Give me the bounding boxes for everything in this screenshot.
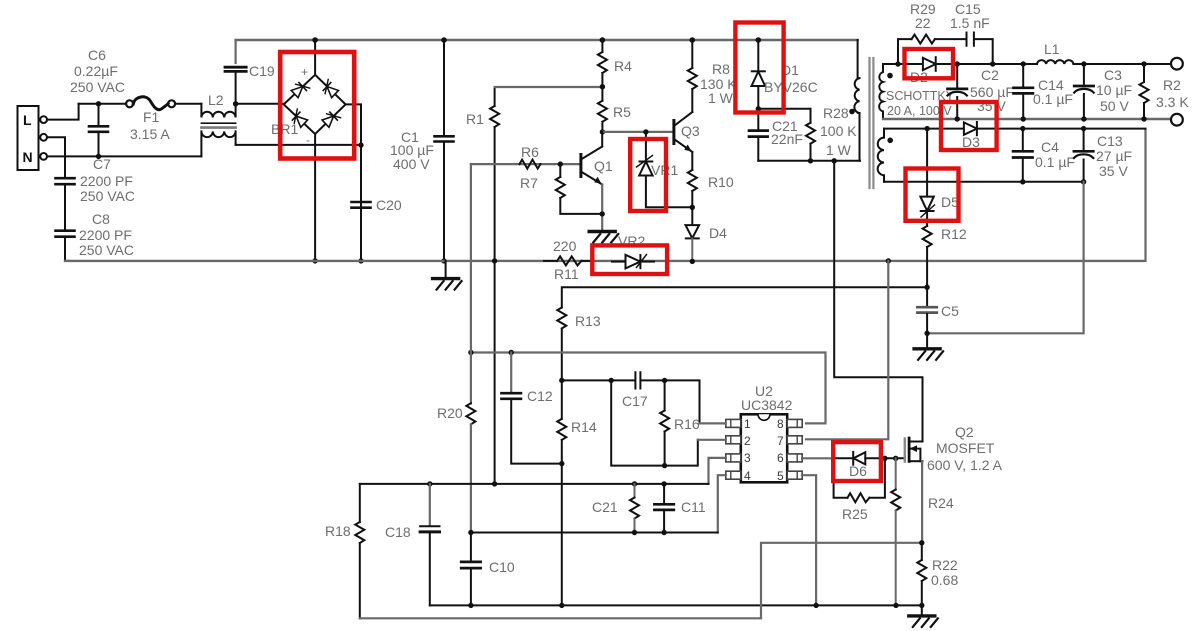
- resistor R11: [544, 256, 592, 265]
- svg-text:50 V: 50 V: [1100, 98, 1129, 114]
- node C21b bottom: [632, 530, 637, 535]
- svg-text:100 K: 100 K: [820, 123, 857, 139]
- svg-text:C11: C11: [681, 499, 706, 515]
- output wire top: [957, 63, 1037, 65]
- node C21b top: [632, 481, 637, 486]
- svg-text:7: 7: [777, 434, 784, 448]
- svg-text:C7: C7: [93, 156, 111, 172]
- svg-text:1 W: 1 W: [826, 142, 852, 158]
- wire secondary top to D2: [883, 63, 923, 65]
- node C11 bottom: [661, 530, 666, 535]
- node rail bridge+: [312, 37, 318, 43]
- current sense lower rail: [360, 543, 922, 619]
- resistor R25 loop: [834, 458, 885, 502]
- wire y=532 rail: [471, 532, 718, 534]
- secondary winding top: [879, 64, 883, 119]
- capacitor C8: [56, 231, 75, 237]
- capacitor C19: [225, 40, 246, 104]
- svg-text:22nF: 22nF: [771, 131, 803, 147]
- node C10 bottom: [468, 603, 473, 608]
- 0V rail: [883, 118, 1171, 120]
- svg-text:Q1: Q1: [594, 158, 613, 174]
- svg-text:R22: R22: [932, 557, 958, 573]
- pin stub 7: [787, 436, 802, 444]
- node C14 top: [1021, 61, 1026, 66]
- svg-text:D4: D4: [709, 225, 727, 241]
- svg-text:C17: C17: [622, 393, 648, 409]
- svg-text:R6: R6: [521, 144, 539, 160]
- bridge diode bottom-right: [321, 109, 340, 128]
- svg-text:250 VAC: 250 VAC: [79, 242, 134, 258]
- svg-text:R28: R28: [823, 105, 849, 121]
- svg-text:N: N: [23, 149, 33, 165]
- IC U2 body: [741, 414, 787, 482]
- node C20 bottom rail: [358, 258, 363, 263]
- svg-text:BYV26C: BYV26C: [764, 79, 818, 95]
- red box D3: [941, 102, 997, 150]
- svg-text:0.1 µF: 0.1 µF: [1033, 91, 1073, 107]
- secondary winding bottom: [878, 129, 884, 182]
- node R1 column bottom: [492, 481, 497, 486]
- node C6 bottom: [96, 154, 101, 159]
- svg-text:2200 PF: 2200 PF: [79, 227, 132, 243]
- diode D3: [964, 122, 977, 135]
- red box D2: [905, 49, 954, 78]
- wire snubber bottom: [758, 160, 860, 162]
- svg-text:R16: R16: [674, 416, 700, 432]
- node snubber R29 corner: [895, 61, 900, 66]
- resistor R1: [490, 87, 499, 261]
- ground under Q1: [589, 232, 618, 243]
- secondary bottom phase dot: [887, 138, 893, 144]
- terminal L circle: [40, 116, 47, 123]
- svg-text:6: 6: [777, 451, 784, 465]
- svg-text:C10: C10: [489, 559, 515, 575]
- wire FB to C17 loop: [562, 379, 635, 381]
- wire D3 to right corner: [977, 129, 1146, 133]
- node C12 bottom / R14: [559, 461, 564, 466]
- svg-text:3.15 A: 3.15 A: [130, 126, 170, 142]
- wire pin5 to ground rail: [802, 475, 816, 604]
- wire Q1 emitter down: [601, 185, 603, 232]
- node C3 bottom: [1081, 116, 1086, 121]
- capacitor C7: [56, 178, 75, 184]
- svg-text:L1: L1: [1044, 41, 1060, 57]
- node C2 bottom: [955, 116, 960, 121]
- wire FB lower side to pin2: [611, 380, 698, 465]
- node gate wire R24: [893, 456, 898, 461]
- resistor R14: [557, 380, 566, 605]
- capacitor C18: [420, 484, 439, 606]
- node R28 bottom: [808, 158, 813, 163]
- node C14 bottom: [1021, 116, 1026, 121]
- node Q1 emitter / R7: [600, 211, 605, 216]
- capacitor C14: [1014, 64, 1033, 119]
- capacitor C4: [1013, 129, 1032, 182]
- capacitor C5: [917, 287, 936, 333]
- secondary top phase dot: [887, 73, 893, 79]
- svg-text:1 W: 1 W: [708, 90, 734, 106]
- node gate wire R25: [882, 456, 887, 461]
- wire L2 to bridge left: [236, 103, 285, 105]
- diode D1: [752, 40, 766, 109]
- terminal N circle: [40, 153, 47, 160]
- bridge rectifier BR1: [284, 40, 361, 261]
- resistor R18: [355, 484, 364, 618]
- svg-text:R12: R12: [941, 226, 967, 242]
- svg-text:R5: R5: [613, 104, 631, 120]
- resistor R2: [1140, 64, 1149, 119]
- svg-text:+: +: [301, 65, 308, 79]
- wire Vref rail pin8: [471, 353, 826, 424]
- node VR1 top: [643, 129, 648, 134]
- wire pin6 to D6: [802, 457, 834, 459]
- node rail C1: [441, 37, 447, 43]
- node C17 left branch: [609, 378, 614, 383]
- svg-text:R24: R24: [928, 495, 954, 511]
- wire gnd mid rail y=484: [360, 483, 709, 485]
- output terminal bottom: [1171, 114, 1183, 126]
- svg-text:L: L: [23, 112, 32, 128]
- wire pin4: [718, 475, 726, 532]
- svg-text:2200 PF: 2200 PF: [80, 173, 133, 189]
- red box BR1: [280, 52, 354, 159]
- svg-text:-: -: [306, 133, 310, 147]
- resistor R10: [688, 152, 697, 207]
- transistor Q1: [581, 132, 602, 185]
- node Q1 base / R7 top: [558, 161, 563, 166]
- capacitor C17: [635, 372, 640, 388]
- resistor R22: [917, 543, 926, 606]
- main ground rail bottom: [430, 604, 922, 606]
- svg-text:220: 220: [553, 238, 577, 254]
- inductor L1: [1037, 60, 1073, 64]
- node C13 bottom: [1081, 179, 1086, 184]
- node R2 bottom: [1141, 116, 1146, 121]
- wire pin1: [700, 422, 726, 424]
- node C15 corner: [990, 61, 995, 66]
- transistor Q3: [674, 112, 692, 152]
- svg-text:R1: R1: [466, 111, 484, 127]
- svg-text:22: 22: [915, 15, 931, 31]
- svg-text:4: 4: [744, 469, 751, 483]
- svg-text:2: 2: [744, 434, 751, 448]
- node source / R22: [919, 540, 924, 545]
- wire R13 top: [562, 287, 927, 307]
- ground under C1: [433, 279, 462, 290]
- svg-text:R18: R18: [325, 523, 351, 539]
- wire mid terminal to C7: [47, 137, 65, 177]
- svg-text:D6: D6: [849, 463, 867, 479]
- wire fuse to L2: [175, 103, 201, 105]
- pin stub 1: [726, 419, 741, 427]
- pin stub 4: [726, 471, 741, 479]
- wire N terminal to L2: [47, 155, 201, 157]
- node rail D1: [756, 37, 762, 43]
- wire L1 to terminal: [1073, 63, 1171, 65]
- wire secondary2 top to D3 line: [884, 128, 964, 130]
- pin stub 5: [787, 471, 802, 479]
- svg-text:10 µF: 10 µF: [1096, 82, 1132, 98]
- svg-text:1: 1: [744, 417, 751, 431]
- node R20/C10 junction: [468, 530, 473, 535]
- capacitor C21 (snubber): [749, 109, 768, 161]
- wire L terminal to top line: [47, 104, 79, 120]
- primary ground rail y=261: [65, 260, 1144, 262]
- svg-text:C3: C3: [1104, 67, 1122, 83]
- wire drain path to Q2: [834, 161, 922, 442]
- primary phase dot: [849, 109, 855, 115]
- svg-text:R25: R25: [842, 506, 868, 522]
- svg-text:L2: L2: [208, 92, 224, 108]
- red box VR2: [592, 245, 667, 274]
- output terminal top: [1171, 58, 1183, 70]
- resistor R12: [923, 226, 932, 287]
- pin stub 2: [726, 436, 741, 444]
- wire Vcc drop to pin7: [806, 261, 888, 439]
- node R13/R14 FB junction: [559, 378, 564, 383]
- red box D1: [735, 23, 783, 113]
- svg-text:R13: R13: [575, 313, 601, 329]
- zener D5: [920, 129, 934, 226]
- wire Q2 source down: [921, 461, 923, 543]
- svg-text:C21: C21: [592, 499, 618, 515]
- svg-text:8: 8: [777, 417, 784, 431]
- svg-text:UC3842: UC3842: [741, 397, 793, 413]
- zener VR1: [637, 132, 693, 207]
- node C2 top: [955, 61, 960, 66]
- ground under C5: [914, 349, 943, 360]
- capacitor C11: [654, 484, 673, 533]
- node C4 bottom: [1020, 179, 1025, 184]
- svg-text:R7: R7: [520, 175, 538, 191]
- svg-text:C2: C2: [981, 67, 999, 83]
- node rail R4: [600, 37, 606, 43]
- primary winding: [854, 40, 859, 161]
- node Vcc branch on rail: [886, 258, 891, 263]
- ground under R22: [909, 616, 938, 627]
- node C12 top: [509, 350, 514, 355]
- wire R5 bottom to Q3 base: [602, 131, 672, 133]
- wire top line to fuse: [79, 103, 127, 105]
- capacitor C10: [461, 533, 480, 606]
- node rail R8: [690, 37, 696, 43]
- svg-text:3: 3: [744, 451, 751, 465]
- inductor L2: [201, 104, 235, 157]
- node R10 bottom / VR1: [690, 205, 695, 210]
- terminal mid circle: [40, 134, 47, 141]
- bridge diode bottom-left: [289, 109, 308, 128]
- wire D3 output drop to rail: [1144, 131, 1146, 261]
- resistor R24: [891, 458, 900, 605]
- svg-text:27 µF: 27 µF: [1096, 148, 1132, 164]
- wire C5 to ground: [926, 333, 928, 348]
- diode D6: [834, 452, 905, 465]
- wire R1 ground column down: [494, 261, 496, 484]
- fuse F1: [126, 97, 175, 110]
- pin stub 6: [787, 454, 802, 462]
- svg-text:1.5 nF: 1.5 nF: [950, 15, 990, 31]
- resistor R16: [660, 380, 669, 465]
- wire R20 corner to R6 to Q1 base: [471, 163, 580, 165]
- resistor R20: [466, 353, 475, 533]
- svg-text:R8: R8: [712, 61, 730, 77]
- svg-text:R4: R4: [614, 58, 632, 74]
- pin stub 3: [726, 454, 741, 462]
- svg-text:3.3 K: 3.3 K: [1156, 94, 1189, 110]
- resistor R8: [688, 40, 697, 112]
- node R1 ground rail: [492, 258, 497, 263]
- wire R22 to ground: [921, 605, 923, 615]
- pin stub 8: [787, 419, 802, 427]
- node C13 top: [1081, 126, 1086, 131]
- svg-text:35 V: 35 V: [1099, 163, 1128, 179]
- input terminal block: [18, 106, 39, 170]
- svg-text:400 V: 400 V: [393, 156, 430, 172]
- svg-text:C13: C13: [1097, 133, 1123, 149]
- diode D4: [686, 207, 700, 261]
- red box VR1: [630, 139, 666, 211]
- node C4 top: [1020, 126, 1025, 131]
- svg-text:C18: C18: [385, 524, 411, 540]
- node C1 bottom rail: [441, 258, 446, 263]
- node R5 bottom / Q1 collector: [600, 129, 605, 134]
- svg-text:BR1: BR1: [271, 121, 298, 137]
- wire C8 to ground rail: [65, 238, 70, 261]
- svg-text:C6: C6: [88, 47, 106, 63]
- node C5 bottom: [924, 331, 929, 336]
- capacitor C3: [1074, 64, 1093, 119]
- node drain branch: [832, 158, 837, 163]
- resistor R6: [520, 160, 541, 169]
- node R14 bottom: [559, 603, 564, 608]
- node D5 branch: [924, 126, 929, 131]
- svg-text:F1: F1: [143, 109, 160, 125]
- svg-text:0.68: 0.68: [931, 572, 958, 588]
- mosfet Q2: [905, 438, 923, 462]
- capacitor C12: [502, 353, 562, 464]
- svg-text:250 VAC: 250 VAC: [80, 188, 135, 204]
- svg-text:D3: D3: [962, 134, 980, 150]
- node pin5 bottom: [813, 603, 818, 608]
- resistor R13: [557, 308, 566, 381]
- wire R20 upper column: [470, 164, 472, 352]
- resistor R28: [806, 109, 815, 161]
- node D1 bottom: [756, 106, 761, 111]
- node C19 bottom: [233, 101, 238, 106]
- node C6 top: [96, 101, 101, 106]
- node R22 bottom ground: [919, 603, 924, 608]
- diode D2 schottky: [923, 57, 957, 71]
- svg-text:Q2: Q2: [955, 424, 974, 440]
- capacitor C1: [435, 40, 454, 261]
- wire pin3: [709, 458, 726, 484]
- red box D5: [906, 169, 959, 221]
- svg-text:0.1 µF: 0.1 µF: [1035, 154, 1075, 170]
- capacitor C13: [1074, 129, 1093, 182]
- red box D6: [833, 442, 881, 481]
- bridge diode top-right: [320, 79, 339, 98]
- node C11 top: [661, 481, 666, 486]
- svg-text:R2: R2: [1163, 77, 1181, 93]
- svg-text:R10: R10: [708, 174, 734, 190]
- svg-text:R11: R11: [554, 266, 579, 282]
- svg-text:C5: C5: [941, 303, 959, 319]
- resistor R7: [556, 164, 602, 214]
- transformer core: [870, 58, 874, 188]
- svg-text:0.22µF: 0.22µF: [74, 63, 118, 79]
- resistor R5: [598, 87, 607, 132]
- svg-text:600 V, 1.2 A: 600 V, 1.2 A: [927, 457, 1003, 473]
- wire return to C5: [927, 182, 1084, 333]
- node R2 top: [1141, 61, 1146, 66]
- svg-text:C8: C8: [92, 211, 110, 227]
- wire pin2: [698, 439, 726, 441]
- IC notch: [758, 414, 770, 420]
- node R24 bottom: [893, 603, 898, 608]
- top rail: [236, 39, 858, 41]
- node R16 bottom: [662, 463, 667, 468]
- svg-text:C19: C19: [249, 63, 275, 79]
- node bridge- bottom rail: [312, 258, 317, 263]
- wire L2 bottom to C20 column: [236, 144, 361, 146]
- node R12 bottom: [924, 285, 929, 290]
- node D4 ground rail: [690, 259, 695, 264]
- node C3 top: [1081, 61, 1086, 66]
- svg-text:C12: C12: [527, 388, 553, 404]
- node C18 top: [427, 481, 432, 486]
- svg-text:Q3: Q3: [681, 123, 700, 139]
- svg-text:C4: C4: [1041, 139, 1059, 155]
- svg-text:MOSFET: MOSFET: [936, 440, 995, 456]
- wire C17 right to pin1: [641, 380, 700, 423]
- zener VR2: [612, 255, 654, 269]
- node R20 top on Vref rail: [468, 350, 473, 355]
- svg-text:R20: R20: [437, 405, 463, 421]
- wire D1 bottom to R28 top: [758, 108, 810, 110]
- resistor C21 (drawn as zigzag in source): [630, 484, 639, 533]
- svg-text:R14: R14: [571, 419, 597, 435]
- capacitor C2: [948, 64, 967, 119]
- capacitor C20: [352, 202, 371, 208]
- wire secondary2 return: [884, 181, 1084, 183]
- node R4/R5 junction: [600, 84, 605, 89]
- resistor R4: [598, 40, 607, 87]
- node L2 bottom / C20: [358, 142, 363, 147]
- snubber R29 C15 loop: [898, 33, 993, 65]
- node R16 top: [662, 378, 667, 383]
- svg-text:250 VAC: 250 VAC: [70, 79, 125, 95]
- svg-text:5: 5: [777, 469, 784, 483]
- bridge diode top-left: [290, 79, 309, 98]
- capacitor C6: [89, 104, 108, 157]
- wire R1 top to R4 bottom: [495, 86, 603, 88]
- svg-text:C20: C20: [376, 197, 402, 213]
